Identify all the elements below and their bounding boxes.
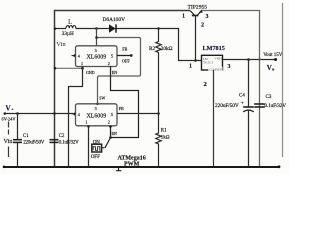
svg-text:6V-24V: 6V-24V (2, 116, 17, 121)
svg-text:3: 3 (228, 64, 231, 70)
svg-text:XL6009: XL6009 (87, 55, 107, 61)
transistor Q1 TIP2955 (182, 5, 209, 61)
svg-text:2: 2 (108, 61, 110, 66)
svg-text:1: 1 (182, 14, 185, 20)
svg-text:3: 3 (95, 106, 97, 111)
svg-text:+: + (11, 107, 14, 112)
svg-text:1: 1 (81, 61, 83, 66)
IC U2 XL6009 boost regulator (bottom) (76, 104, 118, 126)
wire LM7815 output pin3 (223, 58, 278, 61)
svg-text:3: 3 (206, 14, 209, 20)
svg-text:OFF: OFF (91, 155, 100, 160)
svg-text:3: 3 (95, 48, 97, 53)
capacitor C1 220uF/50V (13, 114, 45, 167)
wire GND IC1 pin1 (54, 67, 95, 167)
svg-text:L: L (68, 18, 72, 26)
svg-text:R1: R1 (161, 129, 167, 134)
wire link to IC2 SW (95, 36, 140, 105)
svg-text:5: 5 (111, 112, 113, 117)
switch SPDT ON/OFF (91, 138, 111, 161)
wire FB IC2 pin5 to divider (117, 106, 159, 114)
svg-text:1kΩ: 1kΩ (161, 136, 170, 141)
svg-text:FB: FB (119, 106, 124, 111)
capacitor C2 0.1uF/32V (50, 134, 80, 146)
node base junction (194, 59, 197, 62)
svg-text:FB: FB (122, 47, 127, 52)
svg-text:1: 1 (85, 119, 87, 124)
wire FB switch IC1 pin5 (117, 47, 133, 64)
svg-text:220uF/50V: 220uF/50V (23, 141, 45, 146)
svg-text:C1: C1 (23, 134, 29, 139)
ground rail bottom (3, 165, 281, 168)
resistor R2 20k (149, 29, 173, 114)
svg-text:Vout 15V: Vout 15V (263, 53, 283, 58)
capacitor C3 0.1uF/32V (254, 95, 286, 109)
svg-text:220uF/50V: 220uF/50V (215, 103, 239, 109)
svg-text:COMMON: COMMON (209, 67, 224, 71)
capacitor C4 220uF/50V (215, 60, 254, 167)
wire top border rail (55, 11, 260, 167)
terminal V+ input (2, 104, 17, 121)
svg-text:OFF: OFF (122, 59, 130, 64)
svg-text:V: V (6, 104, 11, 112)
svg-text:VREG: VREG (215, 57, 224, 61)
svg-text:Vin: Vin (56, 41, 66, 48)
svg-text:LM7815: LM7815 (203, 45, 225, 52)
node FB junction R divider (157, 112, 160, 115)
PWM source box ATMega16 (92, 144, 146, 167)
wire IC2 pin2 EN to switch (109, 125, 117, 139)
svg-text:GND: GND (86, 70, 95, 75)
svg-text:1: 1 (189, 63, 192, 69)
inductor L 33uH (62, 18, 76, 37)
svg-text:R2: R2 (149, 46, 155, 52)
wire dashed return (4, 122, 13, 158)
svg-text:+: + (241, 101, 244, 107)
svg-text:SW: SW (99, 95, 105, 100)
pin 4 arrow IC2 (72, 112, 75, 115)
pin 4 stub IC1 (72, 54, 76, 57)
ground symbol (116, 168, 122, 171)
svg-text:Vin: Vin (4, 138, 13, 145)
IC U1 XL6009 boost regulator (top) (76, 46, 118, 67)
border right edge (282, 3, 284, 157)
node boost junction at riser (95, 27, 98, 30)
resistor R1 1k (156, 114, 170, 167)
svg-text:TIP2955: TIP2955 (188, 5, 208, 11)
wire SW riser IC1 pin3 (96, 29, 98, 46)
regulator U3 LM7815 (189, 45, 231, 88)
svg-text:EN: EN (112, 131, 117, 136)
wire IC2 pin1 to ground rail (88, 126, 90, 167)
svg-text:C4: C4 (239, 94, 245, 99)
svg-text:2: 2 (201, 22, 204, 28)
svg-text:20kΩ: 20kΩ (161, 46, 173, 52)
svg-text:7815CT: 7815CT (203, 61, 213, 65)
node R2 top junction (157, 27, 160, 30)
svg-text:EN: EN (112, 70, 117, 75)
wire EN IC1 pin2 (111, 66, 139, 138)
wire boost node (inductor/diode row) (54, 27, 202, 60)
svg-text:2: 2 (204, 81, 207, 88)
svg-text:D6A100V: D6A100V (103, 17, 126, 23)
svg-text:33µH: 33µH (62, 31, 74, 37)
wire input Vin row (4, 112, 76, 115)
svg-text:5: 5 (111, 54, 113, 59)
label Vout (263, 53, 283, 72)
wire LM7815 common pin2 (213, 70, 215, 167)
svg-text:C3: C3 (266, 95, 272, 100)
svg-text:2: 2 (108, 119, 110, 124)
diode D6A100V (103, 17, 126, 33)
svg-text:XL6009: XL6009 (87, 113, 107, 119)
svg-text:C2: C2 (59, 134, 65, 139)
svg-text:0.1uF/32V: 0.1uF/32V (59, 141, 79, 146)
